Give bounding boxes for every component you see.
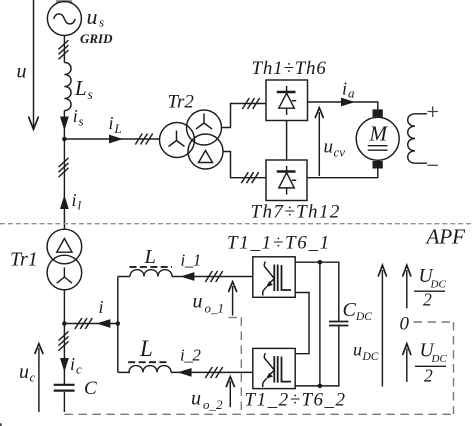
- svg-text:L: L: [144, 246, 156, 268]
- svg-text:M: M: [369, 122, 389, 146]
- svg-text:u: u: [87, 4, 98, 29]
- svg-text:i: i: [342, 79, 347, 99]
- svg-text:2: 2: [423, 290, 432, 310]
- svg-text:s: s: [99, 15, 104, 30]
- svg-text:T1_1÷T6_1: T1_1÷T6_1: [227, 233, 331, 254]
- svg-text:2: 2: [424, 365, 433, 385]
- svg-text:Tr2: Tr2: [168, 92, 195, 113]
- svg-text:T1_2÷T6_2: T1_2÷T6_2: [245, 390, 347, 411]
- svg-text:C: C: [84, 378, 97, 399]
- svg-text:L: L: [139, 336, 153, 361]
- svg-text:L: L: [74, 76, 87, 100]
- svg-text:APF: APF: [425, 225, 466, 249]
- svg-text:s: s: [79, 113, 84, 128]
- svg-text:i: i: [72, 190, 77, 210]
- svg-text:GRID: GRID: [80, 31, 113, 46]
- svg-text:cv: cv: [334, 145, 346, 160]
- svg-text:u: u: [193, 291, 203, 313]
- svg-text:s: s: [88, 87, 93, 102]
- svg-text:L: L: [114, 121, 122, 136]
- svg-text:u: u: [19, 361, 29, 383]
- svg-text:i: i: [109, 113, 114, 133]
- svg-text:u: u: [324, 137, 334, 158]
- svg-text:u: u: [353, 339, 362, 359]
- svg-text:i: i: [70, 354, 75, 374]
- svg-text:i: i: [73, 106, 78, 126]
- svg-text:o_2: o_2: [203, 397, 223, 412]
- svg-text:Th7÷Th12: Th7÷Th12: [251, 202, 341, 223]
- svg-text:a: a: [348, 86, 355, 101]
- svg-text:u: u: [17, 61, 27, 83]
- svg-text:l: l: [78, 198, 82, 213]
- svg-text:DC: DC: [362, 351, 379, 363]
- svg-text:Th1÷Th6: Th1÷Th6: [252, 58, 327, 79]
- svg-text:0: 0: [400, 314, 410, 335]
- svg-text:i: i: [99, 297, 104, 317]
- svg-text:DC: DC: [431, 353, 448, 365]
- svg-text:C: C: [343, 299, 357, 321]
- svg-text:c: c: [76, 362, 82, 377]
- svg-text:u: u: [191, 388, 201, 410]
- svg-text:Tr1: Tr1: [10, 249, 38, 271]
- svg-text:c: c: [30, 370, 36, 385]
- svg-text:DC: DC: [355, 311, 372, 323]
- svg-text:DC: DC: [430, 279, 447, 291]
- svg-text:i_1: i_1: [181, 251, 202, 270]
- svg-text:i_2: i_2: [180, 346, 201, 365]
- svg-text:o_1: o_1: [205, 301, 225, 316]
